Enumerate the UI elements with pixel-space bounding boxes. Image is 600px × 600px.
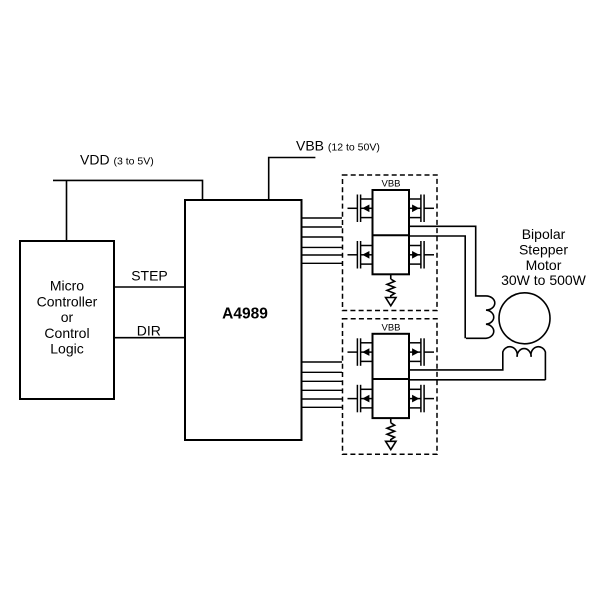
svg-text:Motor: Motor — [526, 257, 562, 273]
svg-text:A4989: A4989 — [222, 306, 268, 323]
svg-text:30W to 500W: 30W to 500W — [501, 272, 587, 288]
svg-text:Bipolar: Bipolar — [522, 226, 566, 242]
svg-text:Stepper: Stepper — [519, 242, 568, 258]
svg-text:Logic: Logic — [50, 340, 83, 356]
svg-text:DIR: DIR — [137, 323, 161, 339]
svg-text:STEP: STEP — [131, 268, 168, 284]
svg-text:or: or — [61, 309, 74, 325]
svg-text:Micro: Micro — [50, 278, 84, 294]
svg-text:Control: Control — [44, 325, 89, 341]
svg-text:Controller: Controller — [37, 294, 98, 310]
